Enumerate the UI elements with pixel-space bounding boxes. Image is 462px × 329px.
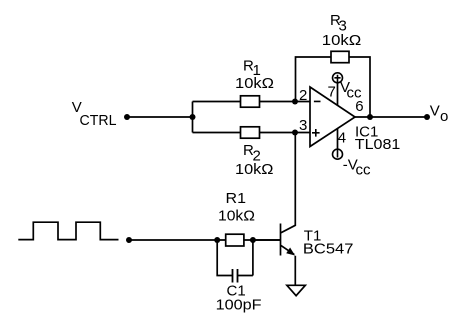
svg-text:3: 3 (299, 117, 307, 134)
svg-text:cc: cc (356, 162, 372, 179)
svg-text:10kΩ: 10kΩ (235, 75, 274, 92)
svg-text:V: V (430, 103, 440, 120)
svg-text:o: o (440, 108, 448, 125)
svg-text:10kΩ: 10kΩ (235, 161, 274, 178)
svg-text:10kΩ: 10kΩ (218, 208, 255, 225)
svg-text:2: 2 (299, 87, 307, 104)
svg-text:10kΩ: 10kΩ (322, 32, 362, 49)
svg-text:CTRL: CTRL (80, 112, 117, 129)
svg-text:TL081: TL081 (355, 136, 401, 153)
svg-text:cc: cc (347, 85, 363, 102)
svg-text:7: 7 (328, 84, 336, 101)
svg-text:BC547: BC547 (303, 241, 354, 258)
svg-text:100pF: 100pF (216, 296, 262, 313)
svg-text:R1: R1 (226, 190, 247, 207)
svg-text:4: 4 (338, 130, 346, 147)
